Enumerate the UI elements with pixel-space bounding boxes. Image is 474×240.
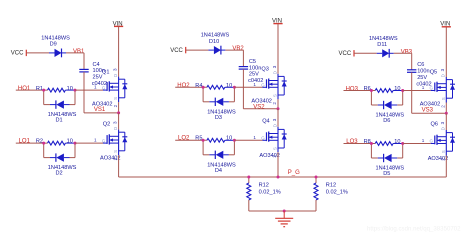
- svg-text:S: S: [441, 97, 446, 100]
- svg-text:10: 10: [67, 139, 73, 145]
- svg-text:2: 2: [441, 105, 446, 108]
- diode D3 1N4148WS: [203, 87, 236, 121]
- svg-text:HO3: HO3: [346, 86, 359, 92]
- wire VCC to bootstrap diode: [26, 52, 49, 54]
- svg-text:R2: R2: [36, 139, 43, 145]
- svg-text:D: D: [272, 124, 277, 127]
- wire VCC to bootstrap diode: [186, 49, 209, 51]
- node junction: [401, 89, 404, 92]
- svg-text:3: 3: [112, 121, 117, 124]
- svg-text:1: 1: [94, 85, 97, 90]
- svg-text:VCC: VCC: [170, 48, 183, 54]
- wire VS horizontal: [243, 108, 278, 110]
- node VS2 junction: [277, 107, 280, 110]
- node junction: [42, 89, 45, 92]
- svg-text:1: 1: [422, 85, 425, 90]
- wire LO input: [16, 142, 48, 144]
- node junction: [233, 86, 236, 89]
- svg-text:AO3402: AO3402: [259, 153, 280, 159]
- svg-text:D2: D2: [56, 171, 63, 177]
- node VS3 junction: [445, 112, 448, 115]
- diode D2 1N4148WS: [44, 143, 77, 177]
- svg-text:R8: R8: [364, 139, 371, 145]
- resistor R6 10: [364, 86, 403, 92]
- svg-text:3: 3: [272, 65, 277, 68]
- capacitor C5 100n 25V: [239, 59, 264, 84]
- svg-text:VCC: VCC: [11, 51, 24, 57]
- wire to Q gate: [234, 86, 262, 88]
- wire Q source to VS: [277, 99, 279, 109]
- svg-text:VS3: VS3: [422, 108, 434, 114]
- wire Q source to VS: [118, 102, 120, 113]
- power port VCC (stage 1): [11, 50, 26, 57]
- svg-text:R12: R12: [326, 182, 336, 188]
- svg-text:3: 3: [272, 118, 277, 121]
- wire VB to capacitor: [66, 53, 84, 70]
- svg-text:VCC: VCC: [339, 51, 352, 57]
- svg-text:D10: D10: [209, 39, 219, 45]
- wire to Q gate: [75, 89, 103, 91]
- svg-text:G: G: [261, 83, 265, 88]
- capacitor C6 100n 25V: [407, 62, 432, 87]
- svg-text:HO2: HO2: [177, 83, 190, 89]
- svg-text:C6: C6: [417, 62, 424, 68]
- transistor Q5: [422, 68, 455, 107]
- svg-text:S: S: [273, 147, 278, 150]
- node junction: [42, 142, 45, 145]
- wire capacitor to VS: [411, 72, 413, 113]
- svg-text:2: 2: [113, 104, 118, 107]
- wire to Q gate: [234, 139, 262, 141]
- node junction rail/R12 right: [315, 176, 318, 179]
- svg-text:100n: 100n: [249, 65, 261, 71]
- node junction rail/R12 left: [247, 176, 250, 179]
- svg-text:D11: D11: [377, 42, 387, 48]
- svg-text:1: 1: [422, 138, 425, 143]
- svg-text:R12: R12: [259, 182, 269, 188]
- svg-text:10: 10: [226, 136, 232, 142]
- svg-text:C5: C5: [249, 59, 256, 65]
- svg-text:R1: R1: [36, 86, 43, 92]
- svg-text:R4: R4: [195, 83, 202, 89]
- node junction: [202, 86, 205, 89]
- wire VIN stem: [445, 27, 447, 77]
- svg-text:VB2: VB2: [232, 46, 244, 52]
- wire to Q gate: [403, 143, 431, 145]
- node junction: [74, 89, 77, 92]
- svg-text:D9: D9: [50, 42, 57, 48]
- diode D11 1N4148WS bootstrap: [369, 36, 398, 58]
- resistor R5 10: [195, 136, 234, 143]
- svg-text:HO1: HO1: [18, 86, 31, 92]
- svg-text:VB1: VB1: [73, 49, 85, 55]
- svg-text:25V: 25V: [417, 75, 427, 81]
- svg-text:https://blog.csdn.net/qq_38350: https://blog.csdn.net/qq_38350702: [367, 226, 461, 233]
- svg-text:G: G: [430, 86, 434, 91]
- svg-text:1N4148WS: 1N4148WS: [201, 33, 230, 39]
- svg-text:10: 10: [394, 86, 400, 92]
- svg-text:P_G: P_G: [288, 170, 300, 176]
- svg-text:Q6: Q6: [431, 122, 438, 128]
- wire Q source to VS: [445, 103, 447, 114]
- svg-text:D6: D6: [383, 118, 390, 124]
- svg-text:0.02_1%: 0.02_1%: [259, 189, 281, 195]
- power port VCC (stage 2): [170, 47, 186, 54]
- wire Q source to rail: [445, 156, 447, 178]
- wire VS horizontal: [412, 112, 447, 114]
- svg-text:3: 3: [112, 68, 117, 71]
- power port VIN (stage 1): [113, 21, 124, 27]
- power port VCC (stage 3): [339, 50, 355, 57]
- svg-text:D: D: [113, 127, 118, 130]
- svg-text:1: 1: [94, 138, 97, 143]
- wire VCC to bootstrap diode: [354, 52, 377, 54]
- transistor Q2: [94, 121, 127, 160]
- svg-text:1: 1: [253, 135, 256, 140]
- svg-text:AO3402: AO3402: [428, 156, 449, 162]
- svg-text:1: 1: [253, 82, 256, 87]
- svg-text:3: 3: [440, 121, 445, 124]
- svg-text:D: D: [441, 74, 446, 77]
- svg-text:25V: 25V: [93, 75, 103, 81]
- diode D4 1N4148WS: [203, 140, 236, 174]
- transistor Q3: [253, 65, 286, 104]
- svg-text:R5: R5: [195, 136, 202, 142]
- svg-text:Q3: Q3: [261, 67, 268, 73]
- wire to Q gate: [403, 90, 431, 92]
- svg-text:10: 10: [226, 83, 232, 89]
- power port VIN (stage 3): [440, 22, 451, 28]
- svg-text:D4: D4: [215, 168, 222, 174]
- wire HO input: [16, 89, 48, 91]
- svg-text:D1: D1: [56, 118, 63, 124]
- node VS1 junction: [117, 111, 120, 114]
- node junction: [370, 142, 373, 145]
- svg-text:25V: 25V: [249, 72, 259, 78]
- svg-text:G: G: [102, 85, 106, 90]
- svg-text:100n: 100n: [417, 69, 429, 75]
- svg-text:G: G: [261, 136, 265, 141]
- wire VB to capacitor: [225, 50, 243, 67]
- node junction: [401, 142, 404, 145]
- svg-text:G: G: [102, 138, 106, 143]
- svg-text:G: G: [430, 139, 434, 144]
- svg-text:C4: C4: [93, 62, 100, 68]
- node junction rail/Q4: [277, 176, 280, 179]
- wire HO input: [175, 86, 207, 88]
- diode D5 1N4148WS: [371, 144, 404, 178]
- resistor R12 shunt (left) 0.02_1%: [247, 177, 281, 211]
- node junction: [370, 89, 373, 92]
- svg-text:R6: R6: [364, 86, 371, 92]
- resistor R4 10: [195, 83, 234, 89]
- svg-text:VS2: VS2: [253, 104, 265, 110]
- resistor R12 shunt (right) 0.02_1%: [314, 177, 348, 211]
- svg-text:3: 3: [440, 68, 445, 71]
- wire LO input: [344, 143, 376, 145]
- wire VB to capacitor: [394, 53, 412, 70]
- resistor R2 10: [36, 139, 75, 146]
- svg-text:D: D: [272, 71, 277, 74]
- transistor Q6: [422, 121, 455, 160]
- resistor R8 10: [364, 139, 403, 146]
- diode D1 1N4148WS: [44, 90, 77, 124]
- svg-text:Q4: Q4: [262, 119, 269, 125]
- transistor Q1: [94, 68, 127, 107]
- svg-text:D: D: [441, 127, 446, 130]
- svg-text:1N4148WS: 1N4148WS: [41, 35, 70, 41]
- wire capacitor to VS: [83, 72, 85, 113]
- svg-text:AO3402: AO3402: [100, 156, 121, 162]
- wire VIN stem: [118, 26, 120, 76]
- wire VIN stem: [277, 24, 279, 74]
- node junction ground: [283, 210, 286, 213]
- wire ground rail P_G: [119, 176, 447, 178]
- ground: [275, 211, 293, 227]
- transistor Q4: [253, 118, 286, 157]
- node junction: [74, 142, 77, 145]
- resistor R1 10: [36, 86, 75, 92]
- diode D9 1N4148WS bootstrap: [41, 35, 70, 57]
- svg-text:VB3: VB3: [401, 49, 413, 55]
- svg-text:D5: D5: [383, 171, 390, 177]
- node junction: [202, 139, 205, 142]
- wire shunt bottoms: [249, 210, 316, 212]
- diode D6 1N4148WS: [371, 91, 404, 125]
- wire VS to lower Q drain: [118, 113, 120, 130]
- svg-text:10: 10: [394, 139, 400, 145]
- wire VS horizontal: [84, 112, 119, 114]
- wire HO input: [344, 90, 376, 92]
- svg-text:Q5: Q5: [430, 70, 437, 76]
- capacitor C4 100n 25V: [79, 62, 107, 87]
- svg-text:S: S: [441, 150, 446, 153]
- wire Q source to rail: [277, 152, 279, 177]
- svg-text:D3: D3: [215, 115, 222, 121]
- svg-text:VS1: VS1: [94, 107, 106, 113]
- wire LO input: [175, 139, 207, 141]
- svg-text:10: 10: [67, 86, 73, 92]
- svg-text:S: S: [273, 94, 278, 97]
- diode D10 1N4148WS bootstrap: [201, 33, 230, 55]
- svg-text:S: S: [113, 97, 118, 100]
- power port VIN (stage 2): [272, 19, 283, 25]
- wire VS to lower Q drain: [445, 113, 447, 130]
- svg-text:D: D: [113, 74, 118, 77]
- svg-text:S: S: [113, 150, 118, 153]
- wire VS to lower Q drain: [277, 109, 279, 127]
- svg-text:1N4148WS: 1N4148WS: [369, 36, 398, 42]
- wire Q source to rail: [118, 155, 120, 177]
- svg-text:Q1: Q1: [102, 69, 109, 75]
- svg-text:Q2: Q2: [103, 121, 110, 127]
- node junction: [233, 139, 236, 142]
- svg-text:2: 2: [272, 102, 277, 105]
- wire to Q gate: [75, 142, 103, 144]
- wire capacitor to VS: [242, 69, 244, 109]
- svg-text:0.02_1%: 0.02_1%: [326, 189, 348, 195]
